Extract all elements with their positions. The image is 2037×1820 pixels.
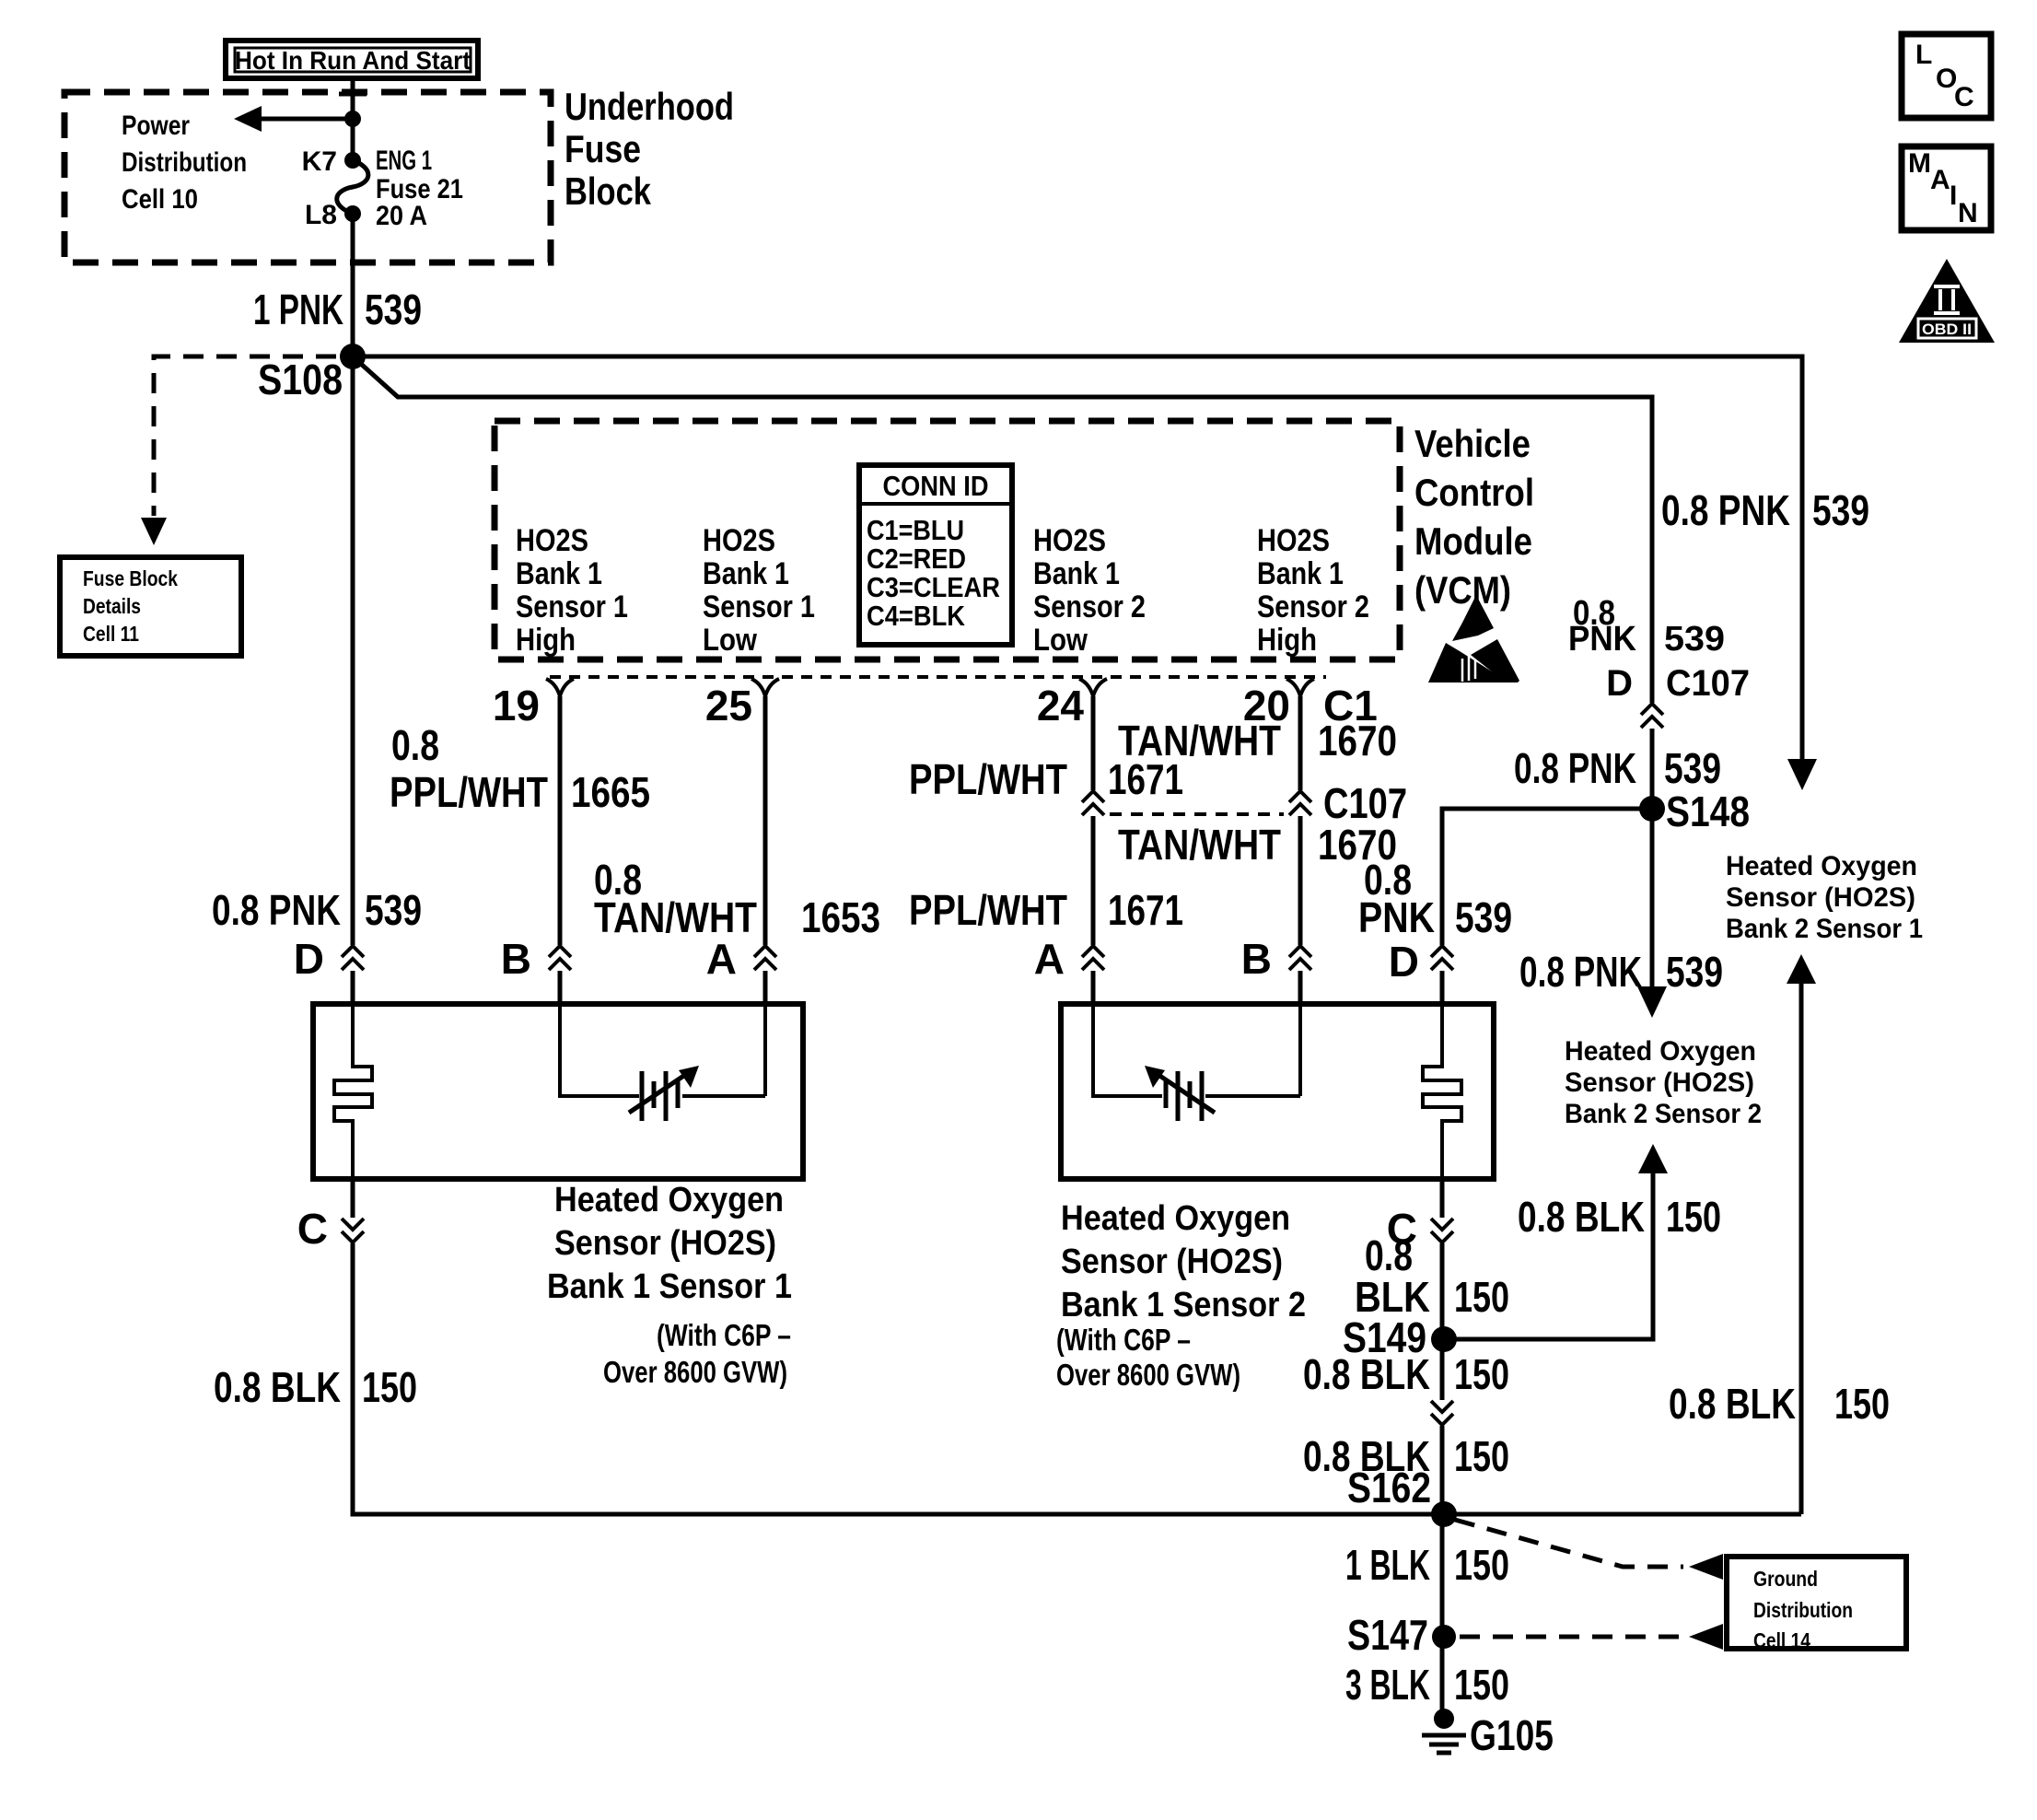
wire 0.8 PNK 539 feed from S108 to connector C107 pin D and HO2S bank 2 sensor 2	[353, 356, 1667, 1018]
VCM channel label HO2S bank 1 sensor 2 high	[1257, 523, 1369, 658]
svg-text:0.8 BLK: 0.8 BLK	[214, 1363, 341, 1411]
pin 24 socket	[1037, 679, 1107, 729]
svg-text:Cell 14: Cell 14	[1753, 1628, 1810, 1652]
pin 20 socket connector C1	[1243, 679, 1378, 729]
wire 1 PNK 539 from fuse to S108	[351, 214, 355, 356]
svg-text:A: A	[1930, 165, 1950, 195]
label 0.8 BLK 150 above S149	[1355, 1231, 1509, 1321]
wire 25 TAN/WHT 1653	[763, 696, 768, 1004]
wire BLK 150 from sensor 1 pin C to S162	[353, 1179, 1801, 1514]
svg-text:539: 539	[1666, 948, 1723, 996]
label 0.8 BLK 150 below S149	[1303, 1350, 1509, 1398]
dashed reference from S162 to ground distribution cell 14	[1455, 1520, 1723, 1580]
svg-text:S162: S162	[1347, 1464, 1431, 1511]
wire BLK 150 from sensor 2 pin C through S149 S162 S147 to G105	[1440, 1179, 1445, 1715]
wire 0.8 PNK 539 from S108 to HO2S bank 1 sensor 1 pin D	[351, 356, 355, 1004]
svg-text:Low: Low	[703, 623, 757, 658]
svg-text:1 PNK: 1 PNK	[253, 286, 343, 333]
dashed reference from S147 to ground distribution cell 14	[1460, 1624, 1723, 1650]
underhood fuse block dashed box	[64, 92, 551, 262]
svg-text:150: 150	[1454, 1432, 1509, 1480]
sensing cell of sensor 1	[560, 1004, 765, 1121]
heated oxygen sensor bank 1 sensor 2 label	[1056, 1199, 1306, 1392]
svg-text:Bank 1: Bank 1	[1257, 556, 1344, 591]
label TAN/WHT 1670 below C107	[1118, 821, 1397, 869]
svg-text:Underhood: Underhood	[565, 85, 734, 128]
svg-text:A: A	[1034, 935, 1065, 983]
pin 19 socket	[493, 679, 574, 729]
svg-text:C3=CLEAR: C3=CLEAR	[867, 571, 1000, 603]
svg-text:539: 539	[1664, 744, 1721, 792]
svg-text:(VCM): (VCM)	[1414, 568, 1511, 612]
wire: hot feed stub into fuse block	[339, 78, 367, 160]
svg-text:B: B	[501, 935, 531, 983]
svg-text:19: 19	[493, 682, 540, 729]
svg-text:Sensor 2: Sensor 2	[1257, 589, 1369, 624]
label 0.8 BLK 150 above S162	[1303, 1432, 1509, 1480]
svg-text:Module: Module	[1414, 519, 1532, 563]
sensing cell of sensor 2	[1093, 1004, 1300, 1121]
label 0.8 PNK 539 on left heater wire	[212, 886, 422, 934]
svg-text:Heated Oxygen: Heated Oxygen	[1061, 1199, 1290, 1238]
svg-text:C2=RED: C2=RED	[867, 542, 966, 575]
svg-text:C4=BLK: C4=BLK	[867, 600, 966, 632]
label 0.8 BLK 150 right of sensor 2 pin C	[1518, 1193, 1721, 1241]
svg-text:N: N	[1958, 198, 1978, 228]
svg-text:HO2S: HO2S	[1257, 523, 1330, 558]
svg-text:0.8 PNK: 0.8 PNK	[212, 886, 341, 934]
svg-text:539: 539	[1812, 486, 1869, 534]
svg-text:Sensor (HO2S): Sensor (HO2S)	[554, 1224, 776, 1263]
svg-text:TAN/WHT: TAN/WHT	[1118, 821, 1281, 869]
svg-text:HO2S: HO2S	[516, 523, 588, 558]
svg-text:Over 8600 GVW): Over 8600 GVW)	[1056, 1358, 1240, 1392]
svg-text:C: C	[1954, 82, 1974, 112]
svg-text:1665: 1665	[571, 768, 650, 816]
svg-text:Control: Control	[1414, 471, 1534, 514]
svg-text:Cell 11: Cell 11	[83, 622, 139, 646]
label 0.8 TAN/WHT 1653	[594, 856, 880, 941]
connector pin A of sensor 1	[706, 935, 778, 983]
svg-text:Bank 1 Sensor 1: Bank 1 Sensor 1	[547, 1267, 792, 1306]
svg-text:Heated Oxygen: Heated Oxygen	[1565, 1036, 1756, 1067]
svg-text:PPL/WHT: PPL/WHT	[390, 768, 548, 816]
VCM channel label HO2S bank 1 sensor 1 low	[703, 523, 815, 658]
splice S149	[1343, 1313, 1457, 1361]
svg-text:C1=BLU: C1=BLU	[867, 514, 964, 546]
wire 0.8 PNK 539 feed from S108 to HO2S bank 2 sensor 1	[353, 356, 1817, 790]
svg-text:Ground: Ground	[1753, 1567, 1818, 1591]
svg-text:C: C	[297, 1205, 328, 1253]
svg-text:S147: S147	[1347, 1611, 1428, 1659]
wire 20 TAN/WHT 1670	[1298, 696, 1303, 1004]
wire 0.8 BLK 150 return from HO2S bank 2 sensor 1 to S162	[1787, 954, 1816, 1514]
label 1 BLK 150	[1345, 1541, 1509, 1589]
heater element of sensor 2	[1423, 1004, 1461, 1179]
svg-text:539: 539	[1455, 893, 1512, 941]
svg-text:PPL/WHT: PPL/WHT	[909, 755, 1067, 803]
svg-text:Sensor 2: Sensor 2	[1033, 589, 1146, 624]
svg-text:Bank 2 Sensor 2: Bank 2 Sensor 2	[1565, 1099, 1762, 1129]
svg-text:539: 539	[365, 286, 422, 333]
fuse ENG 1 / Fuse 21 / 20 A (terminals K7, L8)	[302, 146, 463, 231]
svg-text:20 A: 20 A	[376, 201, 427, 231]
wire 0.8 BLK 150 return from HO2S bank 2 sensor 2 to S149	[1442, 1144, 1668, 1339]
svg-text:0.8 PNK: 0.8 PNK	[1519, 948, 1642, 996]
svg-text:Power: Power	[122, 111, 190, 141]
svg-text:Cell 10: Cell 10	[122, 184, 198, 215]
label 1 PNK 539	[253, 286, 422, 333]
svg-text:D: D	[1389, 938, 1419, 986]
svg-text:Hot In Run And Start: Hot In Run And Start	[235, 46, 471, 75]
svg-text:150: 150	[1834, 1380, 1890, 1428]
svg-text:Heated Oxygen: Heated Oxygen	[554, 1181, 784, 1219]
svg-text:1671: 1671	[1108, 755, 1183, 803]
svg-text:I: I	[1950, 181, 1957, 211]
splice S108	[258, 344, 366, 403]
MAIN legend box	[1902, 146, 1991, 230]
svg-text:Sensor (HO2S): Sensor (HO2S)	[1726, 882, 1915, 913]
svg-text:L: L	[1915, 40, 1932, 70]
svg-text:S108: S108	[258, 356, 343, 403]
pin 25 socket	[705, 679, 779, 729]
inline connector C107 pin D on PNK wire	[1568, 594, 1750, 729]
svg-text:24: 24	[1037, 682, 1085, 729]
svg-text:150: 150	[1454, 1273, 1509, 1321]
svg-text:150: 150	[1666, 1193, 1721, 1241]
svg-text:CONN ID: CONN ID	[883, 470, 989, 502]
svg-text:Vehicle: Vehicle	[1414, 422, 1531, 465]
connector pin B of sensor 2	[1241, 935, 1313, 983]
svg-text:G105: G105	[1470, 1711, 1554, 1759]
svg-text:K7: K7	[302, 146, 337, 177]
LOC legend box	[1902, 34, 1991, 118]
ESD sensitivity symbol	[1428, 595, 1519, 682]
heated oxygen sensor bank 1 sensor 1 label	[547, 1181, 792, 1389]
svg-text:539: 539	[1664, 620, 1725, 659]
power distribution cell 10 label	[122, 111, 247, 215]
svg-text:PPL/WHT: PPL/WHT	[909, 886, 1067, 934]
ground distribution cell 14 box	[1727, 1557, 1906, 1652]
svg-text:(With C6P –: (With C6P –	[1056, 1323, 1191, 1357]
underhood fuse block label	[565, 85, 734, 213]
svg-text:M: M	[1908, 148, 1931, 179]
label PPL/WHT 1671 below C107	[909, 886, 1183, 934]
label 0.8 BLK 150 on sensor 1 ground wire	[214, 1363, 417, 1411]
splice S162	[1347, 1464, 1457, 1527]
VCM connector pin line	[550, 675, 1326, 679]
svg-text:0.8: 0.8	[391, 721, 439, 769]
VCM channel label HO2S bank 1 sensor 1 high	[516, 523, 628, 658]
svg-text:Distribution: Distribution	[122, 147, 247, 178]
splice S147	[1347, 1611, 1456, 1659]
reference label HO2S bank 2 sensor 1	[1726, 851, 1923, 944]
svg-text:Details: Details	[83, 594, 141, 618]
wire 19 PPL/WHT 1665	[558, 696, 563, 1004]
connector pin D of sensor 2	[1389, 938, 1455, 986]
svg-text:150: 150	[362, 1363, 417, 1411]
svg-text:Low: Low	[1033, 623, 1088, 658]
svg-text:1 BLK: 1 BLK	[1345, 1541, 1430, 1589]
label 0.8 PPL/WHT 1665	[390, 721, 650, 816]
svg-text:0.8 BLK: 0.8 BLK	[1518, 1193, 1645, 1241]
svg-text:3 BLK: 3 BLK	[1345, 1661, 1430, 1709]
connector pin B of sensor 1	[501, 935, 573, 983]
svg-text:D: D	[1606, 663, 1633, 704]
svg-text:Bank 2 Sensor 1: Bank 2 Sensor 1	[1726, 914, 1923, 944]
svg-text:Fuse Block: Fuse Block	[83, 566, 178, 590]
svg-text:(With C6P –: (With C6P –	[657, 1318, 791, 1352]
svg-text:Fuse: Fuse	[565, 127, 641, 170]
svg-text:Sensor 1: Sensor 1	[703, 589, 815, 624]
svg-text:150: 150	[1454, 1350, 1509, 1398]
wire PNK 539 from S148 to HO2S bank 1 sensor 2 pin D	[1442, 809, 1652, 1004]
connector pin C of sensor 1	[297, 1205, 366, 1253]
svg-text:539: 539	[365, 886, 422, 934]
svg-text:150: 150	[1454, 1661, 1509, 1709]
svg-text:HO2S: HO2S	[703, 523, 775, 558]
svg-text:Distribution: Distribution	[1753, 1598, 1853, 1622]
inline connector C107 on wires 24 and 20	[1080, 779, 1407, 827]
ground G105	[1422, 1709, 1554, 1759]
heater element of sensor 1	[334, 1004, 372, 1179]
OBD II symbol	[1899, 259, 1995, 343]
svg-text:Sensor 1: Sensor 1	[516, 589, 628, 624]
connector pin A of sensor 2	[1034, 935, 1106, 983]
svg-text:B: B	[1241, 935, 1272, 983]
inline connector on BLK wire below S149	[1429, 1400, 1455, 1426]
svg-text:HO2S: HO2S	[1033, 523, 1106, 558]
label 0.8 PNK 539 (top right)	[1661, 486, 1869, 534]
reference label HO2S bank 2 sensor 2	[1565, 1036, 1762, 1129]
label 3 BLK 150	[1345, 1661, 1509, 1709]
svg-text:ENG 1: ENG 1	[376, 146, 432, 176]
svg-text:25: 25	[705, 682, 752, 729]
svg-text:Sensor (HO2S): Sensor (HO2S)	[1565, 1067, 1754, 1098]
VCM channel label HO2S bank 1 sensor 2 low	[1033, 523, 1146, 658]
svg-text:0.8 PNK: 0.8 PNK	[1514, 744, 1636, 792]
label 0.8 PNK 539 above S148	[1514, 744, 1721, 792]
svg-text:A: A	[706, 935, 737, 983]
svg-text:Heated Oxygen: Heated Oxygen	[1726, 851, 1917, 881]
svg-text:0.8 PNK: 0.8 PNK	[1661, 486, 1790, 534]
connector pin D of sensor 1	[294, 935, 366, 983]
svg-text:1671: 1671	[1108, 886, 1183, 934]
label 0.8 PNK 539 below S148	[1519, 948, 1723, 996]
svg-text:0.8 BLK: 0.8 BLK	[1669, 1380, 1796, 1428]
vehicle control module label	[1414, 422, 1534, 612]
fuse block details cell 11 box	[60, 557, 241, 656]
svg-text:Bank 1: Bank 1	[516, 556, 602, 591]
svg-text:Block: Block	[565, 169, 652, 213]
svg-text:150: 150	[1454, 1541, 1509, 1589]
svg-text:1653: 1653	[801, 893, 880, 941]
heated oxygen sensor bank 1 sensor 1 box	[313, 1004, 803, 1179]
splice S148	[1639, 787, 1750, 835]
svg-text:S148: S148	[1666, 787, 1750, 835]
dashed reference from S108 to fuse block details	[141, 356, 336, 545]
wire 24 PPL/WHT 1671	[1091, 696, 1096, 1004]
label 0.8 BLK 150 on bank 2 sensor 1 return wire	[1669, 1380, 1890, 1428]
svg-text:PNK: PNK	[1358, 893, 1435, 941]
svg-text:Sensor (HO2S): Sensor (HO2S)	[1061, 1242, 1283, 1281]
svg-text:Bank 1 Sensor 2: Bank 1 Sensor 2	[1061, 1286, 1306, 1324]
VCM dashed box	[495, 421, 1400, 659]
svg-text:Over 8600 GVW): Over 8600 GVW)	[603, 1355, 787, 1389]
svg-text:C107: C107	[1666, 663, 1750, 704]
label 0.8 PNK 539 on sensor 2 heater wire	[1358, 856, 1512, 941]
svg-text:OBD II: OBD II	[1922, 321, 1972, 338]
svg-text:High: High	[516, 623, 576, 658]
label TAN/WHT 1670 above C107	[1118, 717, 1397, 764]
CONN ID table	[859, 465, 1012, 645]
power source box Hot In Run And Start	[226, 41, 478, 78]
svg-text:High: High	[1257, 623, 1317, 658]
svg-text:1670: 1670	[1318, 821, 1397, 869]
svg-text:1670: 1670	[1318, 717, 1397, 764]
heated oxygen sensor bank 1 sensor 2 box	[1061, 1004, 1494, 1179]
arrow to power distribution	[234, 106, 353, 132]
connector pin C of sensor 2	[1387, 1205, 1455, 1253]
svg-text:0.8 BLK: 0.8 BLK	[1303, 1350, 1430, 1398]
svg-text:D: D	[294, 935, 324, 983]
label PPL/WHT 1671 above C107	[909, 755, 1183, 803]
junction node in fuse block	[344, 111, 361, 127]
svg-text:Bank 1: Bank 1	[1033, 556, 1120, 591]
svg-text:L8: L8	[305, 200, 337, 230]
svg-text:Bank 1: Bank 1	[703, 556, 789, 591]
svg-text:PNK: PNK	[1568, 620, 1637, 659]
